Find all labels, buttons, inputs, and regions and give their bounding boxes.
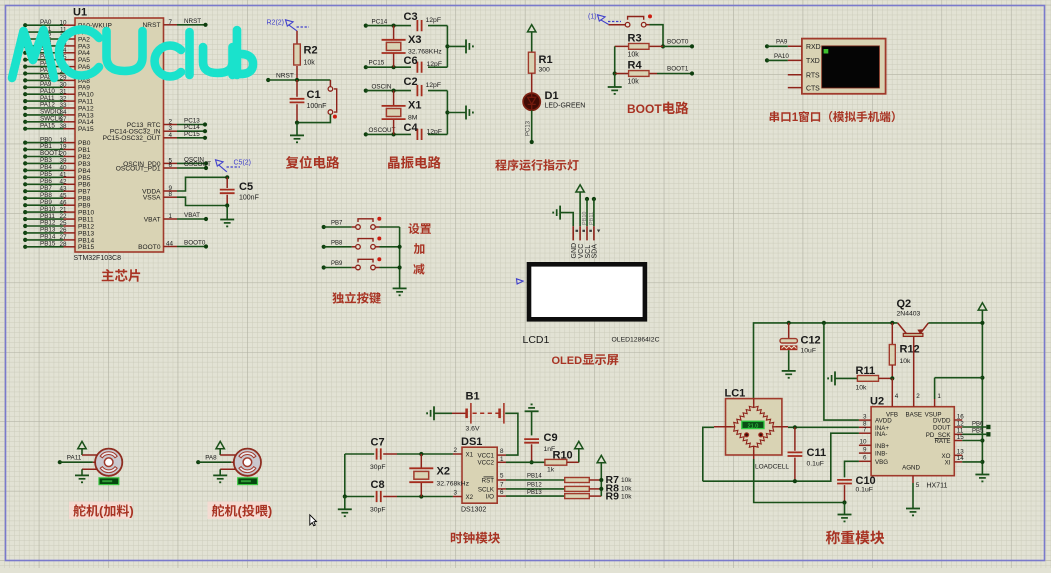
wire PA10 to TXD [767,59,788,61]
svg-text:9: 9 [863,447,867,454]
wire D1 to PC13 terminal [531,110,533,142]
power +5V arrow [528,25,536,32]
node left bus junction [343,494,347,498]
svg-text:BOOT0: BOOT0 [138,244,161,251]
wire AVDD to top bus [824,323,859,420]
svg-text:10: 10 [859,439,867,446]
wire VDDA to C5 top node [177,177,227,191]
svg-text:30pF: 30pF [370,464,386,471]
resistor R3 10k [615,45,663,47]
svg-text:VSSA: VSSA [143,195,161,202]
wire to ground [447,112,465,114]
wire PA9 to RXD [767,45,788,47]
U1 pin 32 (PA11) wire, net PA11 [23,99,27,103]
node C1/ground junction [295,121,299,125]
wire crystal left bus [344,454,346,497]
svg-text:PC15: PC15 [184,131,200,138]
svg-text:10k: 10k [621,493,632,500]
wire buttons ground bus [399,227,401,288]
node R11/R12/VFB junction [890,376,894,380]
U1 pin 29 (PA8) wire, net PA8 [23,78,27,82]
svg-text:PB11: PB11 [589,212,595,225]
svg-text:C11: C11 [807,447,827,459]
U1 pin 22 (PB11) wire, net PB11 [23,217,27,221]
svg-text:OSCOUT_PD1: OSCOUT_PD1 [116,165,161,172]
U1 pin 20 (PB2) wire, net BOOT1 [23,154,27,158]
svg-text:10k: 10k [628,52,640,59]
terminal screen [822,46,880,88]
svg-text:NRST: NRST [184,18,201,25]
node X2 bottom junction [419,494,423,498]
svg-text:PB5: PB5 [972,429,984,435]
svg-text:XI: XI [945,459,951,466]
svg-text:OLED显示屏: OLED显示屏 [552,353,619,367]
U1 pin 45 (PB8) wire, net PB8 [23,196,27,200]
wire PB8 [324,246,352,248]
node ground bus junction [445,110,449,114]
svg-text:舵机(投喂): 舵机(投喂) [212,503,273,518]
svg-text:舵机(加料): 舵机(加料) [73,503,134,518]
wire PB8 button to ground bus [380,246,400,248]
wire to ground [844,503,846,515]
svg-text:PB6: PB6 [78,182,91,189]
svg-text:AVDD: AVDD [875,418,892,425]
caption 舵机(加料) [69,502,132,520]
svg-text:PB13: PB13 [78,230,94,237]
svg-text:复位电路: 复位电路 [286,156,340,171]
U1 pin 25 (PB12) wire, net PB12 [23,224,27,228]
ground C10 [838,515,852,523]
svg-text:C3: C3 [404,11,418,23]
svg-text:46: 46 [59,199,67,206]
chip U1 STM32F103C8 body [75,18,164,252]
ground [75,475,89,483]
svg-text:SDA: SDA [592,244,599,259]
U1 pin 38 (PA15) wire, net PA15 [23,127,27,131]
wire BOOT0 net [663,45,692,47]
node C5 bottom junction [225,203,229,207]
svg-text:U2: U2 [870,395,884,407]
servo pin stubs [82,455,97,469]
svg-text:VBG: VBG [875,459,888,466]
U2 pin 6 stub [859,460,871,462]
svg-text:5: 5 [916,482,920,489]
svg-text:6: 6 [500,489,504,496]
svg-text:2: 2 [454,447,458,454]
ground [290,135,304,143]
power arrow weighing module [978,303,986,310]
svg-text:100nF: 100nF [239,195,259,202]
U1 pin 16 (PA6) wire, net PA6 [23,65,27,69]
wire C8 to X2 pin [397,496,453,498]
svg-text:RTS: RTS [806,72,820,79]
node AVDD junction [822,321,826,325]
U1 pin 27 (PB14) wire, net PB14 [23,238,27,242]
ground battery negative [426,406,434,420]
wire LC1 top / C12 / R12 / Q2 collector bus [754,323,898,399]
wire SDA [593,199,595,226]
svg-text:C1: C1 [307,89,321,101]
LC1 pin stubs [714,399,788,459]
wire VBG to C10 [845,461,859,477]
power arrow servo [216,441,224,448]
svg-text:R2: R2 [304,45,318,57]
wire PB13 net [506,495,565,497]
wire PC14 to C3 [366,25,411,27]
svg-text:程序运行指示灯: 程序运行指示灯 [495,159,579,173]
svg-text:PB1: PB1 [40,143,52,150]
wire C3 to ground bus [428,25,447,27]
servo angle display [238,478,258,485]
svg-text:21.0: 21.0 [747,423,758,429]
wire to ground [296,123,298,136]
svg-text:1k: 1k [547,467,555,474]
wire XI to bus [962,461,982,463]
push button PB8 [356,237,382,250]
DS1302 pin 5 stub [497,479,506,481]
svg-text:TXD: TXD [806,58,820,65]
terminal pin stubs [788,46,802,87]
servo angle display [99,478,119,485]
node R2/C1 junction [295,78,299,82]
U1 pin 19 (PB1) wire, net PB1 [23,147,27,151]
ground (up) above C9 [525,404,539,412]
U1 pin 42 (PB6) wire, net PB6 [23,182,27,186]
svg-text:PA8: PA8 [205,455,217,462]
svg-text:2: 2 [916,393,920,400]
node PC14 terminal [364,24,368,28]
wire PC15 to C6 [366,66,411,68]
svg-text:主芯片: 主芯片 [101,269,142,284]
svg-text:28: 28 [59,241,67,248]
ground [782,371,796,379]
transistor Q2 2N4403 [898,323,929,334]
reset button (vertical) [329,80,331,87]
svg-text:8: 8 [500,448,504,455]
DS1302 pin 6 stub [497,495,506,497]
wire RATE to bus [962,440,982,442]
U1 pin 13 (PA3) wire, net PA3 [23,44,27,48]
push button PB7 [356,217,382,230]
node BOOT0 junction [661,44,665,48]
node XI junction [980,460,984,464]
ground [608,87,622,95]
node PC15 terminal [364,65,368,69]
U2 pin 3 stub [859,419,871,421]
wire servo GND to ground [81,469,83,475]
svg-text:BOOT0: BOOT0 [667,39,689,46]
svg-text:INB+: INB+ [875,443,889,450]
node PB8 terminal [322,245,326,249]
svg-text:VBAT: VBAT [144,216,161,223]
crystal X1 8M [393,91,395,135]
svg-text:4: 4 [895,393,899,400]
power arrow servo [78,441,86,448]
U1 pin 34 (PA13) wire, net SWDIO [23,113,27,117]
svg-text:BOOT1: BOOT1 [667,66,689,73]
svg-text:C7: C7 [371,437,385,449]
U2 pin 15 (RATE) [954,440,962,442]
svg-text:减: 减 [413,262,425,276]
node PA10 terminal [765,58,769,62]
svg-text:PB10: PB10 [582,212,588,225]
svg-text:LC1: LC1 [725,387,746,399]
svg-text:OSCOUT: OSCOUT [184,161,211,168]
watermark MCUclub [12,30,253,79]
svg-text:PA11: PA11 [67,455,82,462]
ground [466,106,474,120]
caption 舵机(投喂) [208,502,271,520]
svg-text:X1: X1 [466,451,474,458]
resistor R7 10k [565,478,590,483]
svg-text:R1: R1 [539,54,553,66]
svg-text:39: 39 [59,158,67,165]
U1 pin 14 (PA4) wire, net PA4 [23,51,27,55]
wire PB12 net [506,488,565,490]
wire power to servo VCC [81,449,83,455]
svg-text:X3: X3 [408,34,421,46]
DS1302 pin 2 (X1) [453,453,462,455]
node INA+/C11 junction [793,425,797,429]
capacitor C2 12pF [417,85,421,96]
wire left bus to C8 [345,496,374,498]
terminal cursor [824,49,829,54]
svg-text:PB9: PB9 [331,261,343,267]
wire VSUP to power bus [935,377,983,379]
node C9/VCC2 junction [530,460,534,464]
svg-text:PB8: PB8 [78,196,91,203]
svg-text:PA10: PA10 [774,53,789,60]
wire C5 to ground [226,206,228,220]
svg-text:10k: 10k [628,79,640,86]
svg-text:PB3: PB3 [40,157,52,164]
svg-text:PB7: PB7 [40,185,52,192]
crystal X3 32.768KHz [393,26,395,68]
svg-text:38: 38 [59,123,67,130]
ground [466,39,474,53]
node PA11 terminal [58,460,62,464]
DS1302 pin 7 stub [497,488,506,490]
wire C7 to X1 pin [397,453,453,455]
svg-text:7: 7 [500,482,504,489]
node OSCOUT terminal [364,132,368,136]
wire PA8 signal [198,461,231,463]
svg-text:PB8: PB8 [331,241,343,247]
U2 pin 10 stub [859,444,871,446]
node emitter/power junction [980,321,984,325]
ground [393,288,407,296]
svg-text:VCC2: VCC2 [477,460,494,467]
U1 pin 43 (PB7) wire, net PB7 [23,189,27,193]
BOOT jumper button [625,14,652,27]
DS1302 pin 8 (VCC1) stub [497,454,506,456]
svg-text:7: 7 [863,427,867,434]
svg-text:C12: C12 [801,335,821,347]
svg-text:6: 6 [863,455,867,462]
svg-text:LCD1: LCD1 [523,334,550,346]
wire LC1 bottom to C10 node [754,459,845,503]
capacitor C4 12pF [417,129,421,140]
svg-text:16: 16 [957,413,965,420]
U1 pin 39 (PB3) wire, net PB3 [23,161,27,165]
node SCL terminal [585,197,589,201]
U1 pin 46 (PB9) wire, net PB9 [23,203,27,207]
svg-text:PB10: PB10 [40,206,56,213]
svg-text:U1: U1 [73,7,87,19]
capacitor C6 12pF [417,62,421,73]
wire R3 to R4 junction [614,46,616,73]
wire power to servo VCC [219,449,221,455]
node OSCOUT wire junction [392,132,396,136]
svg-text:独立按键: 独立按键 [332,292,381,306]
wire C4 to ground bus [428,133,447,135]
OLED pin stubs [573,226,594,240]
resistor R1 300 [528,52,535,73]
wire ground to B1 [434,412,452,414]
U2 pin 14 (XI) [954,461,962,463]
sensor LC1 LOADCELL body [726,399,782,455]
U2 pin 13 (XO) stub [954,454,962,456]
svg-text:PB10: PB10 [78,210,94,217]
svg-text:CTS: CTS [806,85,820,92]
mouse cursor [310,515,317,526]
wire VSSA to C5 bottom node [177,197,227,205]
chip DS1 DS1302 body [462,447,497,503]
wire button to BOOT0 node [650,25,664,47]
U2 pin 12 (DOUT) [954,426,962,428]
node OSCIN terminal [364,89,368,93]
probe marker C5(2) [216,160,227,172]
wire button to ground node [297,114,330,122]
wire C12 to ground [788,350,790,371]
svg-text:PB14: PB14 [527,474,542,480]
U1 pin 28 (PB15) wire, net PB15 [23,245,27,249]
svg-text:PC15: PC15 [369,60,385,67]
node C5 top junction [225,175,229,179]
svg-text:43: 43 [59,185,67,192]
U1 pin 21 (PB10) wire, net PB10 [23,210,27,214]
U2 pin 1 (VSUP) stub [934,399,936,407]
svg-text:AGND: AGND [902,465,920,472]
crystal X2 32.768kHz [420,454,422,497]
svg-text:PB7: PB7 [331,221,343,227]
wire ground bus [446,26,448,68]
DS1302 pin 3 (X2) [453,496,462,498]
svg-text:PB4: PB4 [78,168,91,175]
node bus/R7 junction [599,478,603,482]
svg-text:VBAT: VBAT [184,212,200,219]
node R3/R4/ground junction [613,71,617,75]
capacitor C1 100nF [296,80,298,123]
svg-text:PA9: PA9 [776,39,788,46]
node ground bus junction [445,44,449,48]
U2 pin 5 (AGND) [912,476,914,483]
wire OSCIN to C2 [366,90,411,92]
ground AGND [906,509,920,517]
capacitor C11 0.1uF [794,427,796,451]
wire Q2 emitter to power bus [928,322,982,324]
svg-text:PC14: PC14 [372,18,388,25]
ground OLED GND [552,206,560,220]
wire to ground [344,497,346,510]
svg-text:OSCOUT: OSCOUT [369,127,396,134]
U2 pin 16 (DVDD) stub [954,419,962,421]
capacitor C3 12pF [417,20,421,31]
U1 pin 26 (PB13) wire, net PB13 [23,231,27,235]
wire C6 to ground bus [428,66,447,68]
wire PB14 net [506,479,565,481]
U1 pin 10 (PA0-WKUP) wire, net PA0 [23,23,27,27]
svg-text:RXD: RXD [806,44,821,51]
svg-text:10k: 10k [621,477,632,484]
svg-text:(1): (1) [588,14,597,21]
ground [338,509,352,517]
svg-text:PB5: PB5 [40,171,52,178]
svg-text:SCLK: SCLK [478,486,495,493]
loadcell weight display 21.0 [742,421,764,428]
display LCD1 OLED12864I2C body [529,264,645,319]
svg-text:30pF: 30pF [370,507,386,514]
svg-text:C8: C8 [371,479,385,491]
svg-text:PB6: PB6 [972,421,984,427]
node PA9 terminal [765,44,769,48]
U1 pin 37 (PA14) wire, net SWCLK [23,120,27,124]
svg-text:10k: 10k [900,358,912,365]
svg-text:C5: C5 [239,181,253,193]
DS1302 pin 1 (VCC2) stub [497,461,506,463]
wire GND pin to ground [560,213,573,227]
U1 pin 18 (PB0) wire, net PB0 [23,141,27,145]
wire BOOT1 net [657,73,692,75]
svg-text:C10: C10 [856,475,876,487]
marker arrow left of LCD [517,279,524,284]
wire PB9 [324,267,352,269]
servo motor (feeder A) [95,449,122,476]
bridge resistors (loadcell) [754,405,776,427]
wire DOUT to PB6 [962,426,986,428]
wire ground bus [446,91,448,135]
node X2 top junction [419,452,423,456]
wire to ground [447,45,465,47]
svg-text:PC13: PC13 [526,120,532,136]
svg-text:DVDD: DVDD [933,418,951,425]
node SDA terminal [592,197,596,201]
wire LC1 left to bottom loop [703,427,714,481]
U1 pin 17 (PA7) wire, net PA7 [23,71,27,75]
svg-text:C6: C6 [404,55,418,67]
wire to ground [614,74,616,88]
chip U2 HX711 body [871,407,954,476]
svg-text:R9: R9 [606,490,620,502]
svg-text:INA-: INA- [875,431,887,438]
resistor R11 10k [857,376,878,382]
node RATE junction [980,438,984,442]
wire power to R1 [531,32,533,52]
capacitor C12 10uF (polarized) [788,323,790,339]
wire AGND to ground [912,483,914,509]
wire R10 to power [578,449,580,463]
svg-text:PC15-OSC32_OUT: PC15-OSC32_OUT [103,135,161,142]
svg-text:BOOT电路: BOOT电路 [627,101,689,116]
power arrow R10 [575,441,583,448]
svg-text:PB9: PB9 [40,199,52,206]
node OSCIN wire junction [392,89,396,93]
svg-text:B1: B1 [466,391,480,403]
svg-text:晶振电路: 晶振电路 [387,156,441,171]
node PB6 terminal [986,425,990,429]
wire PB9 button to ground bus [380,267,400,269]
svg-text:0.1uF: 0.1uF [807,461,824,468]
